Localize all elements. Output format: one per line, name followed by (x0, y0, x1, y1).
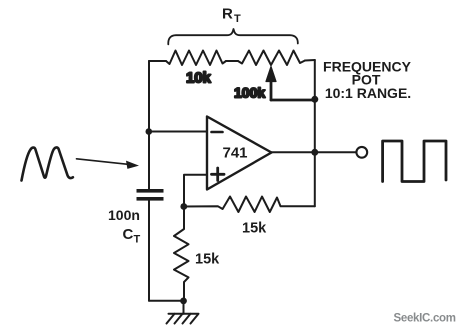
annotation arrow to capacitor node (77, 159, 140, 169)
node: output junction (311, 149, 318, 156)
potentiometer R2 100k (part of RT) (238, 51, 305, 66)
wire: top rail left segment (149, 60, 166, 62)
wire: top rail middle segment (226, 60, 238, 62)
label: 741 part number (223, 145, 248, 162)
capacitor CT plates (137, 189, 164, 201)
svg-text:10k: 10k (186, 70, 211, 87)
resistor R1 10k (part of RT) (166, 51, 226, 66)
wire: left bus lower (148, 201, 150, 301)
potentiometer wiper arrow (266, 67, 276, 101)
resistor R4 15k feedback (184, 197, 315, 213)
op-amp U1 741 triangle (207, 117, 272, 190)
label: 15k value (feedback resistor) (242, 221, 267, 237)
svg-text:100k: 100k (234, 85, 265, 101)
node: wiper junction (311, 96, 318, 103)
svg-text:15k: 15k (195, 252, 220, 268)
wire: wiper to right bus (271, 99, 315, 102)
wire: top rail right segment (305, 59, 315, 62)
wire: left bus upper (148, 61, 150, 190)
wire: inverting input (149, 131, 207, 133)
label: 10k value (186, 70, 211, 87)
wire: non-inverting input (184, 175, 207, 207)
svg-text:T: T (134, 234, 141, 246)
resistor R3 15k vertical (174, 207, 189, 301)
node: ground junction (180, 298, 187, 305)
label: CT designator (123, 226, 141, 246)
terminal: output circle (356, 147, 367, 158)
watermark: SeekIC.com (394, 313, 456, 325)
svg-text:100n: 100n (108, 207, 140, 223)
label: 100n value (108, 207, 140, 223)
sawtooth waveform symbol (22, 147, 73, 180)
svg-text:T: T (234, 13, 241, 25)
node: non-inverting input junction (180, 203, 187, 210)
label: 100k value (234, 85, 265, 101)
wire: right bus (314, 60, 316, 206)
label: FREQUENCY POT 10:1 RANGE (323, 58, 412, 100)
ground symbol (167, 314, 199, 324)
op-amp U1 plus input sign (212, 168, 225, 181)
svg-text:R: R (222, 6, 233, 23)
wire: op-amp output to right bus (272, 151, 315, 153)
brace: RT span (168, 29, 298, 44)
wire: ground stub (183, 301, 185, 314)
svg-text:10:1 RANGE.: 10:1 RANGE. (325, 85, 411, 101)
node: inverting input junction (146, 128, 153, 135)
label: 15k value (vertical resistor) (195, 252, 220, 268)
wire: output to terminal (315, 151, 356, 153)
svg-text:SeekIC.com: SeekIC.com (394, 313, 456, 325)
wire: bottom to ground node (149, 300, 184, 302)
label: RT designator (222, 6, 241, 26)
op-amp U1 minus input sign (212, 131, 223, 134)
svg-text:C: C (123, 226, 134, 243)
svg-text:741: 741 (223, 145, 248, 162)
svg-text:15k: 15k (242, 221, 267, 237)
square wave output symbol (383, 141, 446, 182)
